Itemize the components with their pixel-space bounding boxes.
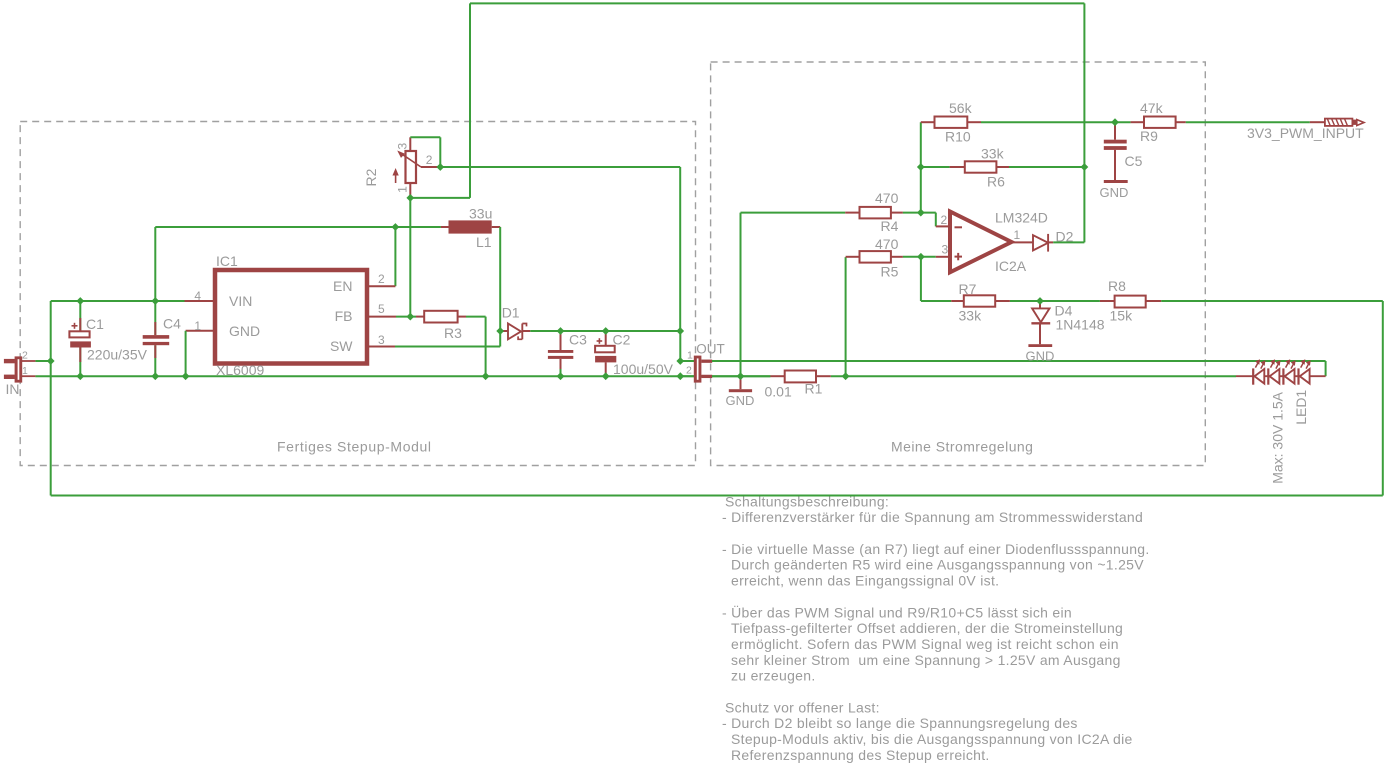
- svg-text:- Differenzverstärker für die: - Differenzverstärker für die Spannung a…: [722, 509, 1143, 525]
- svg-text:C1: C1: [86, 316, 104, 332]
- svg-text:XL6009: XL6009: [216, 362, 264, 378]
- svg-text:4: 4: [194, 289, 201, 303]
- svg-text:33k: 33k: [959, 308, 983, 324]
- svg-text:GND: GND: [1026, 349, 1055, 364]
- svg-text:R4: R4: [881, 218, 899, 234]
- svg-text:erreicht, wenn das Eingangssig: erreicht, wenn das Eingangssignal 0V ist…: [731, 573, 999, 589]
- svg-text:C3: C3: [569, 332, 587, 348]
- svg-text:R5: R5: [881, 264, 899, 280]
- svg-text:56k: 56k: [949, 100, 973, 116]
- svg-text:Schaltungsbeschreibung:: Schaltungsbeschreibung:: [725, 493, 889, 509]
- svg-text:Max: 30V 1.5A: Max: 30V 1.5A: [1269, 391, 1285, 483]
- svg-text:2: 2: [426, 153, 433, 167]
- svg-text:3V3_PWM_INPUT: 3V3_PWM_INPUT: [1247, 125, 1364, 141]
- svg-text:GND: GND: [726, 393, 755, 408]
- svg-text:R7: R7: [959, 281, 977, 297]
- svg-text:ermöglicht. Sofern das PWM Sig: ermöglicht. Sofern das PWM Signal weg is…: [731, 636, 1119, 652]
- svg-text:EN: EN: [333, 278, 352, 294]
- svg-text:LED1: LED1: [1293, 390, 1309, 425]
- svg-text:33k: 33k: [981, 146, 1005, 162]
- svg-text:5: 5: [378, 302, 385, 316]
- svg-text:R10: R10: [945, 129, 971, 145]
- svg-text:- Durch D2 bleibt so lange die: - Durch D2 bleibt so lange die Spannungs…: [722, 715, 1078, 731]
- svg-text:C4: C4: [163, 316, 181, 332]
- svg-text:1: 1: [194, 319, 201, 333]
- svg-text:Stepup-Moduls aktiv, bis die A: Stepup-Moduls aktiv, bis die Ausgangsspa…: [731, 731, 1133, 747]
- svg-text:C2: C2: [613, 332, 631, 348]
- svg-text:Schutz vor offener Last:: Schutz vor offener Last:: [725, 699, 880, 715]
- svg-text:R1: R1: [805, 380, 823, 396]
- svg-text:15k: 15k: [1110, 308, 1134, 324]
- svg-text:R2: R2: [363, 168, 379, 186]
- svg-text:33u: 33u: [469, 206, 492, 222]
- svg-text:470: 470: [875, 236, 899, 252]
- svg-text:C5: C5: [1125, 153, 1143, 169]
- svg-text:1: 1: [1014, 228, 1021, 242]
- svg-text:VIN: VIN: [229, 293, 252, 309]
- svg-text:Referenzspannung des Stepup er: Referenzspannung des Stepup erreicht.: [731, 747, 990, 763]
- svg-text:OUT: OUT: [696, 342, 725, 357]
- svg-text:sehr kleiner Strom um eine Sp: sehr kleiner Strom um eine Spannung > 1.…: [731, 652, 1121, 668]
- svg-text:2: 2: [22, 349, 28, 361]
- svg-text:Meine Stromregelung: Meine Stromregelung: [891, 439, 1033, 455]
- svg-text:R8: R8: [1108, 278, 1126, 294]
- svg-text:2: 2: [686, 365, 692, 377]
- svg-text:D1: D1: [502, 305, 520, 321]
- svg-text:47k: 47k: [1140, 100, 1164, 116]
- svg-text:1N4148: 1N4148: [1056, 316, 1105, 332]
- svg-text:GND: GND: [1100, 185, 1129, 200]
- svg-text:Durch geänderten R5 wird eine: Durch geänderten R5 wird eine Ausgangssp…: [731, 557, 1144, 573]
- svg-text:2: 2: [378, 272, 385, 286]
- svg-text:1: 1: [396, 186, 410, 193]
- svg-text:100u/50V: 100u/50V: [613, 361, 674, 377]
- svg-text:IN: IN: [6, 381, 20, 397]
- svg-text:Tiefpass-gefilterter Offset ad: Tiefpass-gefilterter Offset addieren, de…: [731, 620, 1123, 636]
- svg-text:1: 1: [22, 365, 28, 377]
- svg-text:0.01: 0.01: [765, 383, 792, 399]
- svg-text:D2: D2: [1056, 228, 1074, 244]
- svg-text:L1: L1: [476, 234, 492, 250]
- svg-text:1: 1: [687, 350, 693, 362]
- svg-text:FB: FB: [335, 308, 353, 324]
- svg-text:3: 3: [396, 143, 410, 150]
- svg-text:Fertiges Stepup-Modul: Fertiges Stepup-Modul: [277, 439, 432, 455]
- svg-text:- Über das PWM Signal und R9/R: - Über das PWM Signal und R9/R10+C5 läss…: [722, 603, 1072, 620]
- svg-text:R9: R9: [1140, 128, 1158, 144]
- svg-text:R6: R6: [987, 173, 1005, 189]
- svg-text:GND: GND: [229, 323, 260, 339]
- svg-text:IC2A: IC2A: [995, 258, 1027, 274]
- svg-text:IC1: IC1: [216, 253, 238, 269]
- svg-text:3: 3: [378, 333, 385, 347]
- svg-text:470: 470: [875, 190, 899, 206]
- svg-text:2: 2: [941, 213, 948, 227]
- svg-text:- Die virtuelle Masse (an R7): - Die virtuelle Masse (an R7) liegt auf …: [722, 541, 1150, 557]
- svg-text:SW: SW: [330, 338, 353, 354]
- svg-text:zu erzeugen.: zu erzeugen.: [731, 668, 816, 684]
- svg-text:3: 3: [942, 243, 949, 257]
- svg-text:LM324D: LM324D: [995, 210, 1048, 226]
- svg-text:R3: R3: [444, 325, 462, 341]
- svg-text:220u/35V: 220u/35V: [87, 347, 148, 363]
